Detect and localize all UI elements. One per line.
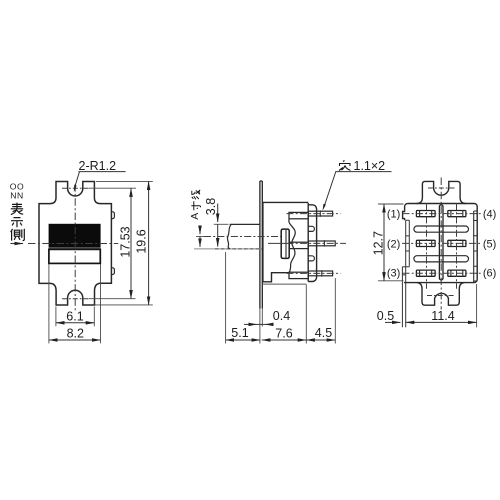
left metal strip upper — [406, 220, 410, 267]
extension 8.2 right — [100, 264, 102, 343]
extension 8.2 left — [48, 264, 50, 343]
svg-text:2-R1.2: 2-R1.2 — [79, 159, 117, 173]
rear body top-left corner and lug — [403, 204, 408, 221]
rear bottom tab with notch — [417, 283, 464, 306]
extension A tick — [196, 236, 204, 238]
hole leader arrowhead — [323, 204, 326, 211]
extension 19.6 bottom — [95, 304, 153, 306]
dimension 3.8 — [217, 204, 219, 223]
mold D-notch upper — [308, 226, 314, 231]
svg-text:(4): (4) — [483, 209, 496, 221]
dimension 7.6 — [262, 339, 307, 341]
pin center line row3 — [287, 272, 341, 274]
dimension 11.4 — [406, 321, 477, 323]
row center line 1 — [403, 213, 482, 215]
dimension 4.5 — [306, 339, 335, 341]
left metal strip step — [402, 266, 409, 268]
extension 5.1 left — [225, 252, 227, 344]
pin 2 — [416, 240, 435, 246]
svg-text:(6): (6) — [483, 267, 496, 279]
svg-text:4.5: 4.5 — [315, 326, 332, 340]
front view body outline — [39, 182, 111, 306]
svg-text:6.1: 6.1 — [66, 309, 83, 323]
notch extension line top — [89, 187, 136, 189]
pin tick row1 — [319, 210, 321, 216]
svg-text:7.6: 7.6 — [275, 326, 292, 340]
svg-text:(5): (5) — [483, 238, 496, 250]
kanji 示 (drawn) — [11, 218, 23, 228]
column center line right — [456, 203, 458, 289]
rear top tab with notch — [417, 181, 467, 203]
central actuator slot — [439, 205, 443, 280]
pin tick row2 — [323, 240, 325, 246]
notch extension line bottom — [89, 298, 136, 300]
svg-text:0.4: 0.4 — [273, 309, 290, 323]
terminal base row2 — [289, 242, 308, 248]
shaft center line — [204, 236, 289, 238]
svg-text:17.53: 17.53 — [119, 226, 133, 257]
mold D-notch lower — [308, 256, 314, 261]
wavy mold edge — [289, 219, 295, 272]
extension 6.1 right — [93, 307, 95, 327]
svg-text:3.8: 3.8 — [204, 198, 218, 215]
extension 11.4 right — [476, 284, 478, 327]
pin 5 — [448, 240, 466, 246]
extension 4.5 right — [334, 278, 336, 344]
pin tick row3 — [321, 270, 323, 276]
extension 3.8 top — [214, 223, 229, 225]
dimension line 8.2 — [49, 339, 101, 341]
pin 1 — [416, 211, 435, 217]
pin inner ticks — [420, 211, 463, 277]
terminal base row3 — [289, 272, 308, 278]
slider knob gray band — [49, 247, 101, 249]
main center line vertical — [440, 178, 442, 310]
svg-text:1.1×2: 1.1×2 — [354, 159, 386, 173]
dimension 0.4 — [244, 323, 257, 325]
slider knob black — [49, 224, 101, 247]
pin lead row2 — [308, 241, 335, 246]
pin lead row1 — [308, 211, 332, 216]
pin lead row3 — [308, 271, 332, 276]
extension 12.7 top — [378, 203, 404, 205]
slider window white — [49, 249, 100, 263]
shaft bottom dashes — [215, 248, 262, 250]
dimension line 17.53 — [130, 188, 132, 299]
pin 3 — [416, 270, 435, 276]
hole leader line — [324, 172, 392, 208]
svg-text:19.6: 19.6 — [134, 229, 148, 253]
svg-text:NN: NN — [10, 191, 24, 201]
extension panel lines down — [259, 309, 261, 344]
center line vertical front — [74, 184, 76, 313]
svg-text:12.7: 12.7 — [372, 231, 386, 255]
text A寸法 rotated (A + drawn kanji) — [189, 190, 201, 220]
rear body rectangle — [404, 204, 477, 283]
body left and bottom step — [263, 202, 289, 281]
extension 19.6 top — [96, 180, 153, 182]
notch center dash bottom rear — [427, 295, 454, 297]
pin plate (header) — [308, 203, 316, 282]
dimension 5.1 — [226, 339, 261, 341]
shaft top edge — [230, 223, 260, 225]
row center line 3 — [403, 272, 482, 274]
svg-text:A: A — [189, 213, 201, 220]
extension 12.7 bottom — [378, 280, 404, 282]
pin 4 — [448, 211, 466, 217]
svg-text:11.4: 11.4 — [431, 309, 454, 323]
svg-text:(1): (1) — [387, 209, 400, 221]
svg-text:(2): (2) — [387, 238, 400, 250]
center line horizontal front — [28, 243, 118, 245]
side lug lower on right edge — [111, 268, 114, 275]
base bottom thin line — [262, 283, 307, 285]
dimension line 19.6 — [148, 181, 150, 305]
svg-text:0.5: 0.5 — [377, 309, 394, 323]
extension 6.1 left — [55, 307, 57, 327]
pin center line row1 — [287, 213, 341, 215]
oval slot lower — [414, 256, 469, 262]
right edge inner line — [473, 211, 475, 283]
notch center dash bottom — [62, 298, 90, 300]
body top edge — [262, 201, 308, 203]
pin center line row2 — [287, 242, 347, 244]
dimension 0.5 — [385, 321, 400, 323]
mounting panel plate — [260, 181, 262, 309]
leader arrowhead 2-R1.2 — [74, 185, 77, 192]
text 穴 1.1×2 (drawn 穴 + digits) — [339, 161, 351, 171]
side lug upper on right edge — [111, 212, 114, 219]
svg-text:8.2: 8.2 — [67, 327, 84, 341]
pin 6 — [448, 270, 466, 276]
shaft break arc — [227, 224, 231, 249]
terminal base row1 — [289, 212, 308, 218]
body slot vertical — [281, 229, 289, 258]
shaft bottom hidden gray line — [194, 248, 262, 250]
leader 2-R1.2 — [75, 172, 126, 188]
row center line 2 — [402, 242, 480, 244]
notch center dash top — [62, 187, 90, 189]
row2 center line over slot — [268, 242, 292, 244]
oval slot upper — [414, 226, 469, 232]
dimension 12.7 — [383, 204, 385, 281]
kanji 表 (drawn) — [11, 203, 23, 215]
dimension A — [199, 228, 201, 235]
left metal strip lower 0.5 — [402, 267, 405, 328]
kanji 側 (drawn) — [11, 229, 25, 241]
body slot inner line — [285, 230, 287, 258]
extension 7.6 right — [305, 285, 307, 344]
column center line left — [426, 203, 428, 289]
svg-text:(3): (3) — [387, 267, 400, 279]
ON label arrow — [11, 243, 24, 245]
notch center dash top rear — [428, 187, 455, 189]
right edge ticks — [474, 211, 477, 281]
dimension line 6.1 — [56, 322, 94, 324]
svg-text:5.1: 5.1 — [231, 326, 248, 340]
